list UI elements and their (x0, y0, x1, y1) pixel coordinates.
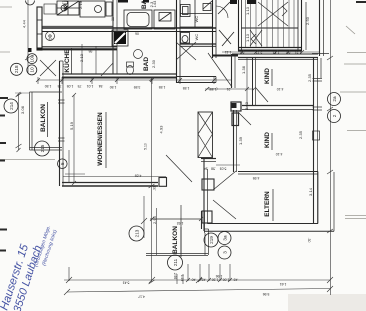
svg-text:.40: .40 (192, 278, 197, 282)
svg-text:BALKON: BALKON (40, 104, 47, 132)
svg-text:4.10: 4.10 (276, 152, 283, 156)
kind1 left wall (252, 57, 254, 105)
svg-text:4.93: 4.93 (159, 126, 164, 134)
hall wall corner x232 (231, 54, 233, 88)
stair treads (246, 0, 295, 47)
right wall upper (319, 0, 321, 56)
left dim chain (27, 0, 29, 73)
upper wall column left (37, 7, 42, 50)
svg-text:2.35: 2.35 (298, 131, 303, 139)
svg-text:.30: .30 (307, 238, 311, 243)
svg-text:.43: .43 (202, 278, 207, 282)
svg-text:BAD: BAD (141, 0, 148, 9)
svg-text:.75: .75 (58, 84, 63, 88)
shower room upper (154, 10, 175, 29)
extension lines to circles cluster (187, 264, 189, 281)
svg-text:2.12: 2.12 (256, 50, 263, 54)
radiator kind2 door (231, 102, 241, 111)
svg-text:2.95: 2.95 (152, 216, 157, 224)
svg-text:KIND: KIND (264, 132, 271, 148)
svg-text:1.00: 1.00 (223, 278, 230, 282)
svg-text:213: 213 (134, 229, 139, 237)
svg-text:218: 218 (14, 65, 19, 73)
kitchen door swing (40, 60, 56, 76)
kind1 dim row (205, 88, 254, 90)
svg-text:KIND: KIND (264, 68, 271, 84)
circled numbers (4, 1, 341, 271)
bottom dim line 2 (67, 289, 330, 293)
svg-text:1.13: 1.13 (245, 7, 250, 15)
dim line 2.50 (305, 2, 307, 50)
svg-text:.43: .43 (234, 278, 239, 282)
wohnen left wall (59, 61, 61, 186)
svg-text:.84: .84 (204, 167, 209, 171)
stair arrows (258, 2, 288, 26)
svg-text:.54: .54 (99, 84, 104, 88)
svg-text:10: 10 (29, 67, 34, 73)
thick band y47 left (42, 46, 117, 48)
svg-text:ELTERN: ELTERN (264, 191, 271, 217)
room labels rotated (40, 0, 273, 257)
bathtub upper bad (124, 10, 152, 29)
svg-text:1.13: 1.13 (245, 34, 250, 42)
svg-text:5: 5 (60, 162, 65, 165)
svg-text:5.96: 5.96 (263, 292, 270, 296)
kind1 door dim (246, 57, 248, 110)
svg-text:2.35: 2.35 (307, 74, 312, 82)
chimney (112, 30, 128, 46)
svg-text:1.55: 1.55 (159, 85, 166, 89)
gray band bottom right (288, 294, 366, 311)
kitchen sink (46, 32, 55, 41)
bad fixtures (134, 50, 143, 59)
svg-text:1.55: 1.55 (183, 86, 190, 90)
svg-text:3.14: 3.14 (308, 187, 313, 196)
svg-text:4.44: 4.44 (22, 19, 27, 28)
svg-text:.75: .75 (49, 37, 54, 41)
svg-text:(1.55): (1.55) (209, 87, 218, 91)
svg-text:1.61: 1.61 (280, 282, 287, 286)
dim under stairs (222, 51, 320, 53)
svg-text:3a: 3a (222, 235, 227, 241)
kind1 top wall (232, 53, 318, 55)
svg-text:1.96: 1.96 (216, 274, 223, 278)
svg-text:214: 214 (9, 102, 14, 110)
kitchen left wall lower (112, 0, 114, 74)
svg-text:3: 3 (222, 251, 227, 254)
svg-text:90: 90 (135, 32, 139, 36)
faint gray marks (0, 7, 366, 219)
svg-text:3.59: 3.59 (134, 85, 141, 89)
svg-text:WC: WC (194, 16, 199, 23)
svg-text:2.13: 2.13 (78, 1, 83, 9)
upper wall band y28 (42, 27, 216, 29)
svg-text:5.03: 5.03 (220, 167, 227, 171)
svg-text:2: 2 (332, 114, 337, 117)
top edge dark blobs (230, 0, 237, 4)
svg-text:4.10: 4.10 (277, 87, 284, 91)
svg-text:BALKON: BALKON (172, 226, 179, 254)
bottom dim line 1 (68, 267, 70, 281)
svg-text:KÜCHE: KÜCHE (62, 49, 71, 73)
svg-text:215: 215 (40, 144, 45, 152)
kind dividing wall (242, 105, 314, 107)
svg-text:5.19: 5.19 (69, 122, 74, 130)
svg-text:WOHNEN/ESSEN: WOHNEN/ESSEN (97, 112, 104, 166)
eltern bottom wall (208, 223, 318, 225)
svg-text:.75: .75 (78, 84, 83, 88)
svg-text:1.11: 1.11 (225, 50, 231, 54)
svg-text:.21: .21 (227, 87, 232, 91)
svg-text:10a: 10a (30, 54, 35, 62)
svg-text:1.05: 1.05 (67, 84, 74, 88)
svg-text:5.43: 5.43 (123, 281, 130, 285)
balkon bottom (201, 211, 203, 229)
wohnen vertical chain (151, 79, 153, 282)
svg-text:38: 38 (111, 17, 115, 21)
svg-text:5.10: 5.10 (144, 143, 148, 150)
svg-text:2.50: 2.50 (305, 16, 310, 25)
svg-text:1.92: 1.92 (177, 221, 184, 225)
kind2 left wall (233, 110, 235, 172)
dim texts (20, 1, 313, 299)
dim row under wall A (38, 79, 232, 81)
svg-text:1.38: 1.38 (241, 66, 246, 74)
svg-text:1.50: 1.50 (110, 85, 117, 89)
wohnen bottom wall (62, 182, 158, 184)
svg-text:219: 219 (209, 236, 214, 244)
svg-text:WC: WC (194, 34, 199, 41)
svg-text:.90: .90 (241, 50, 246, 54)
svg-text:1.63: 1.63 (153, 1, 157, 8)
svg-text:KÜ: KÜ (61, 0, 70, 10)
svg-text:BAD: BAD (143, 57, 150, 71)
wall wc right (212, 0, 214, 58)
svg-text:1.50: 1.50 (45, 84, 52, 88)
eltern top wall (238, 171, 318, 173)
svg-text:.33: .33 (153, 186, 157, 191)
svg-text:4.17: 4.17 (138, 295, 145, 299)
eltern left wall (203, 158, 205, 231)
svg-text:1.13: 1.13 (273, 50, 280, 54)
right dim chain (330, 0, 332, 295)
balkon top left (29, 92, 31, 150)
svg-text:4.69: 4.69 (135, 174, 142, 178)
svg-text:.95: .95 (89, 49, 94, 53)
stairs box (238, 0, 240, 51)
handwriting blue (0, 225, 59, 311)
wc cubicles (180, 13, 213, 15)
svg-text:2a: 2a (332, 96, 337, 102)
main wall A (62, 73, 176, 75)
eltern top dim (216, 164, 240, 166)
svg-text:2.95: 2.95 (173, 273, 177, 280)
svg-text:2.63: 2.63 (244, 102, 249, 110)
upper kitchen counters (44, 4, 56, 14)
svg-text:3.08: 3.08 (20, 106, 25, 114)
svg-text:1.39: 1.39 (238, 137, 243, 145)
x-box shaft (198, 112, 213, 158)
right wall kind rooms (313, 57, 315, 224)
svg-text:1.21: 1.21 (295, 50, 302, 54)
svg-text:.58: .58 (211, 167, 216, 171)
svg-text:211: 211 (173, 258, 178, 266)
wall bad right (176, 0, 178, 83)
svg-text:1.01: 1.01 (87, 84, 94, 88)
svg-text:2.30: 2.30 (151, 59, 156, 68)
svg-text:4.95: 4.95 (253, 176, 260, 180)
svg-text:.90: .90 (287, 50, 292, 54)
chimney fill (114, 32, 126, 44)
hall door diagonals (219, 30, 231, 44)
svg-text:2.13: 2.13 (79, 54, 84, 62)
svg-text:1.19: 1.19 (180, 275, 184, 282)
